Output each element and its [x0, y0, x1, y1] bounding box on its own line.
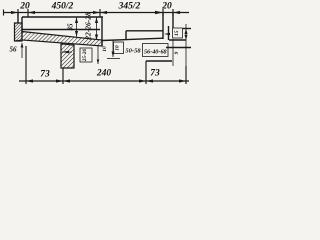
arrow right tip x63 [56, 79, 63, 82]
step edge x168.5 [168, 26, 170, 40]
svg-text:345/2: 345/2 [118, 2, 141, 12]
boxed rot label 25-26 [80, 48, 92, 62]
plate right edge [162, 31, 164, 39]
box with 10 [114, 42, 124, 54]
plate left edge [21, 17, 23, 32]
plate top [126, 30, 163, 32]
arrow left tip x173 (dim 20 right, outside) [173, 11, 180, 14]
right half profile [102, 29, 191, 62]
centerline [97, 46, 99, 64]
svg-text:450/2: 450/2 [51, 2, 74, 12]
svg-text:20: 20 [161, 2, 172, 12]
arrow right tip x100 (dim 450/2 right) [93, 11, 100, 14]
arrow left tip x28 (dim 450/2 left / 20 right) [28, 11, 35, 14]
step surface right of plate [169, 39, 186, 41]
dim 35 vertical [75, 18, 78, 37]
right bottom line [166, 47, 191, 49]
svg-text:240: 240 [96, 69, 112, 79]
svg-text:25-26: 25-26 [82, 49, 88, 63]
plate left edge [125, 31, 127, 40]
box 56-40-68 [143, 44, 169, 57]
centerline arrowhead [97, 60, 100, 65]
flange hatched [15, 23, 23, 41]
svg-text:35: 35 [67, 23, 75, 32]
plate bottom line [22, 29, 100, 31]
dim 22-26-28 vertical [95, 18, 98, 41]
tick x163 [162, 9, 164, 17]
svg-text:9: 9 [174, 51, 180, 54]
bar top right [102, 38, 163, 40]
bottom dim line [19, 80, 189, 82]
rib arrow [62, 51, 69, 54]
ext x146 [145, 61, 147, 84]
right upper ref line [183, 28, 191, 30]
vertical x173 [172, 39, 174, 66]
svg-text:15: 15 [174, 30, 180, 36]
arrow right tip x163 (dim 345/2 right) [155, 11, 163, 14]
rib hatched [61, 44, 74, 68]
ext line x173 down [172, 13, 174, 28]
bottom dimension band [19, 46, 189, 84]
svg-text:22-26-28: 22-26-28 [84, 12, 93, 41]
tick x173 [172, 9, 174, 17]
ext line x18 to flange [17, 13, 19, 23]
svg-text:10: 10 [102, 46, 108, 52]
ext x186 [185, 66, 187, 84]
svg-text:73: 73 [150, 69, 160, 79]
arrow right tip x146 [139, 79, 146, 82]
arrow left tip x100 (dim 345/2 left) [100, 11, 107, 14]
arrow left tip x63 [63, 79, 70, 82]
15 boxed label [164, 28, 183, 38]
top dimension line [3, 12, 189, 14]
bottom notch line [146, 60, 172, 62]
far right vertical dim [185, 24, 188, 66]
arrow left tip x146 [146, 79, 153, 82]
svg-text:10: 10 [115, 45, 121, 51]
tick x28 [27, 9, 29, 17]
ext x63 [62, 68, 64, 84]
ext x26 [25, 46, 27, 84]
up arrow x22 [21, 43, 24, 59]
arrow right tip x186 [179, 79, 186, 82]
svg-text:73: 73 [40, 70, 50, 80]
svg-text:56-40-68: 56-40-68 [144, 48, 167, 55]
tick x18 [17, 9, 19, 17]
center divider [101, 17, 103, 46]
top surface line [22, 16, 103, 18]
svg-text:20: 20 [19, 2, 30, 12]
svg-text:56: 56 [10, 46, 18, 54]
tick x3.5 [3, 10, 5, 16]
down arrow x113 [107, 40, 120, 59]
arrow right tip x18 (dim 20 left, outside) [11, 11, 18, 14]
ext line x163 down [162, 13, 164, 31]
arrow left tip x26 [26, 79, 33, 82]
svg-text:50-58: 50-58 [125, 47, 141, 54]
tick x100 [99, 9, 101, 17]
wedge bar hatched [15, 32, 103, 47]
